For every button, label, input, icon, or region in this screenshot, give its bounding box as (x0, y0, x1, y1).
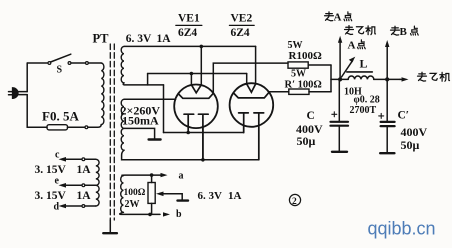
circled 2 figure number (289, 194, 300, 205)
wire tube2 right anode lead (255, 46, 257, 84)
wire heater drop (163, 85, 165, 133)
label qu B dian (391, 26, 419, 35)
svg-text:VE1: VE1 (178, 13, 200, 25)
plug P (9, 88, 28, 98)
tube VE2 envelope (230, 83, 274, 127)
wire branch up to anode bus 2 (147, 74, 149, 85)
label A dian (node A) (358, 40, 366, 49)
svg-text:L: L (360, 57, 368, 71)
tube VE2 anode V (247, 84, 256, 92)
svg-text:2700T: 2700T (350, 105, 377, 116)
svg-text:qqibb.cn: qqibb.cn (368, 219, 436, 239)
svg-text:5W: 5W (291, 69, 306, 80)
node A junction dot (338, 77, 342, 81)
core ground (109, 220, 111, 233)
arrow marker A dian (342, 61, 353, 77)
resistor 100ohm 2W (pot) (151, 175, 153, 182)
svg-text:c: c (55, 150, 60, 161)
svg-text:3. 15V: 3. 15V (35, 190, 67, 202)
ground pot wiper (178, 199, 189, 201)
arrow terminal a (161, 174, 164, 176)
svg-text:6Z4: 6Z4 (231, 27, 250, 39)
anode bus 2 (148, 73, 247, 75)
svg-text:1A: 1A (77, 190, 92, 202)
wire choke to node B (374, 78, 400, 80)
svg-text:e: e (55, 176, 60, 187)
wire W2 top to tube1 (124, 98, 176, 100)
ground center tap (149, 138, 161, 140)
tube VE1 cathode dish (178, 93, 213, 98)
wire VE2 cathode to R' (269, 91, 289, 93)
svg-text:2W: 2W (125, 199, 140, 210)
transformer PT primary winding (101, 63, 104, 125)
tap e wire (85, 184, 96, 186)
junction dot pot top (150, 173, 154, 177)
wire W2 center tap (124, 128, 155, 138)
svg-text:1A: 1A (77, 164, 92, 176)
resistor R' 100ohm 5W (289, 89, 309, 94)
svg-text:PT: PT (93, 31, 110, 45)
pot wiper arrow to ground (156, 192, 164, 197)
label qu A dian (top) (325, 12, 352, 21)
svg-text:R′ 100Ω: R′ 100Ω (285, 79, 322, 90)
svg-text:1A: 1A (157, 33, 172, 45)
svg-text:C: C (307, 110, 315, 122)
junction dot heater bus1 (186, 131, 190, 135)
svg-text:A: A (334, 12, 342, 24)
secondary winding W2 (2x260V HV) (121, 99, 124, 150)
ground C (332, 151, 347, 153)
wire top to switch (27, 62, 48, 64)
wire tube2 left anode lead (246, 74, 248, 85)
wire tube2 right heater pin drop (258, 126, 260, 160)
wire plug vertical (26, 63, 28, 127)
plus sign C' (379, 113, 384, 118)
wire tube1 left anode lead (190, 74, 192, 85)
node B junction dot (385, 77, 389, 81)
svg-text:2: 2 (292, 197, 297, 207)
wire W2 bottom to heater bus 2 (122, 150, 259, 160)
resistor R 100ohm 5W (288, 62, 308, 68)
secondary winding W3 (6.3V 1A output) (121, 176, 124, 213)
secondary winding W1 (6.3V 1A heater) (121, 46, 124, 83)
svg-text:R100Ω: R100Ω (289, 50, 322, 62)
svg-text:6. 3V: 6. 3V (126, 33, 152, 45)
wire R join vertical (330, 65, 332, 92)
tube VE2 heater pins (239, 113, 249, 133)
arrow up (to point B) (386, 46, 388, 79)
tube VE2 cathode dish (234, 93, 269, 98)
capacitor C' (386, 79, 388, 121)
heater bus 1 (164, 132, 244, 134)
choke L winding (348, 76, 374, 79)
svg-text:400V: 400V (401, 125, 428, 139)
svg-text:C′: C′ (398, 110, 410, 122)
svg-text:1A: 1A (228, 190, 242, 202)
svg-text:6. 3V: 6. 3V (198, 190, 223, 202)
choke L core bar (347, 71, 373, 73)
svg-text:50μ: 50μ (401, 138, 420, 152)
tap c wire (85, 158, 96, 160)
wire W1 top to anode bus 1 (124, 45, 256, 47)
svg-text:a: a (179, 170, 184, 181)
wire to node A (331, 78, 348, 80)
wire switch to primary (89, 62, 102, 64)
wire VE1 cathode up to R (213, 63, 288, 93)
wire tube2 left heater pin drop (243, 126, 245, 133)
svg-text:S: S (57, 65, 63, 76)
tube VE1 envelope (174, 85, 218, 129)
svg-text:150mA: 150mA (122, 114, 159, 128)
tap d wire (85, 205, 96, 207)
transformer core (dashed) (109, 44, 111, 220)
svg-text:100Ω: 100Ω (124, 188, 146, 198)
wire W1 bottom (123, 83, 163, 85)
wire W3 top to a (122, 174, 161, 177)
3.15V winding e-d (96, 185, 99, 206)
svg-text:d: d (54, 201, 60, 212)
svg-text:B: B (400, 26, 408, 38)
plus sign C (332, 112, 337, 117)
svg-text:VE2: VE2 (231, 13, 253, 25)
label qu yi ji (right) (418, 72, 450, 81)
tube VE1 heater pins (184, 114, 194, 132)
junction dot heater bus2 (201, 158, 205, 162)
fuse F0.5A (47, 125, 101, 130)
ground C' (380, 152, 394, 154)
3.15V winding c-e (96, 159, 99, 185)
wire tube1 right anode lead (200, 46, 202, 84)
svg-text:F0. 5A: F0. 5A (42, 109, 79, 124)
junction dot tube1 left anode (190, 72, 194, 76)
svg-text:50μ: 50μ (297, 134, 316, 148)
svg-text:6Z4: 6Z4 (178, 27, 197, 39)
wire bottom to fuse (27, 126, 47, 128)
wire W3 bottom to b (120, 212, 160, 214)
junction dot tube1 anode (200, 45, 204, 49)
arrow right (to unit B) (400, 78, 401, 80)
svg-text:3. 15V: 3. 15V (35, 164, 67, 176)
svg-text:b: b (176, 209, 182, 220)
label qu yi ji (above node A) (345, 26, 376, 35)
junction dot pot bottom (148, 213, 152, 217)
tube VE1 anode V (191, 85, 201, 93)
capacitor C (338, 79, 340, 121)
arrow terminal b (163, 212, 170, 216)
svg-text:A: A (348, 39, 356, 51)
arrow up (to unit B) at node A (339, 42, 341, 79)
wire tube1 right heater pin drop (202, 126, 204, 160)
switch S (48, 54, 88, 64)
